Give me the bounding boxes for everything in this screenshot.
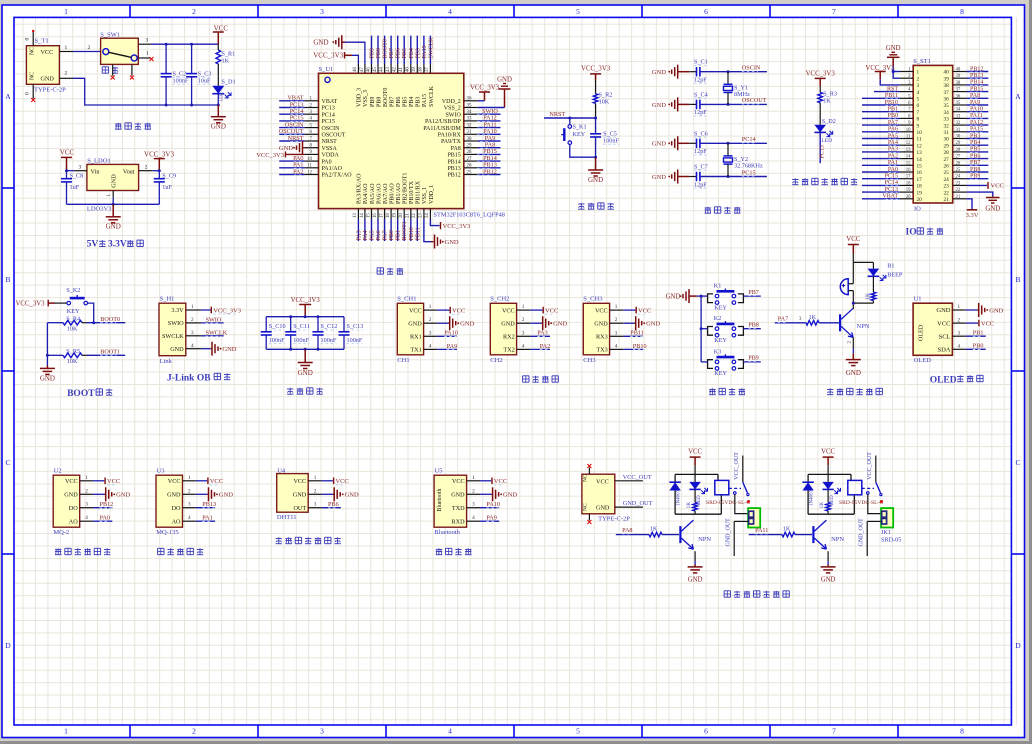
svg-text:S_K2: S_K2: [66, 287, 80, 294]
svg-text:PB4: PB4: [409, 48, 415, 58]
svg-text:2: 2: [65, 71, 68, 77]
connector S_CH3: [583, 296, 623, 364]
svg-text:4: 4: [448, 727, 452, 736]
svg-text:TX3: TX3: [596, 347, 607, 354]
wire relay contact to connector (PA11): [868, 494, 881, 513]
svg-text:15: 15: [366, 213, 371, 218]
ground GND (power circuit): [211, 105, 226, 131]
svg-text:CH1: CH1: [397, 357, 409, 364]
svg-text:LED: LED: [821, 138, 832, 144]
power GND (ST1 pin 22): [967, 192, 1001, 212]
svg-text:16: 16: [906, 168, 911, 173]
relay switch (PA11): [862, 482, 883, 503]
svg-text:BOOT1: BOOT1: [402, 221, 408, 240]
mcu top net wires and labels: [370, 36, 435, 64]
svg-text:VCC: VCC: [688, 448, 702, 455]
key S_K1 (reset button): [561, 118, 595, 157]
svg-text:1: 1: [191, 304, 194, 310]
svg-text:16: 16: [917, 170, 923, 176]
svg-text:D: D: [1015, 641, 1021, 650]
power VCC_3V3 (ldo output): [144, 150, 174, 170]
svg-text:VCC: VCC: [991, 183, 1004, 190]
svg-text:PB12: PB12: [100, 501, 114, 508]
svg-text:TX2: TX2: [503, 347, 514, 354]
svg-text:PA2: PA2: [293, 168, 303, 175]
svg-text:20: 20: [906, 195, 911, 200]
power VCC_3V3 (filter): [291, 297, 321, 317]
svg-text:K1: K1: [714, 283, 722, 290]
switch S_SW1: [100, 32, 138, 74]
svg-text:NPN: NPN: [831, 536, 844, 543]
svg-text:1uF: 1uF: [162, 184, 172, 191]
svg-text:PB8: PB8: [748, 322, 758, 328]
svg-text:C: C: [1015, 458, 1020, 467]
svg-text:3: 3: [145, 38, 148, 44]
title 温湿度检测模块: [276, 537, 341, 543]
svg-text:8MHz: 8MHz: [734, 91, 750, 98]
title OLED显示屏: [930, 375, 983, 385]
net label PB10 (S_CH3): [623, 343, 646, 350]
svg-text:MQ-135: MQ-135: [156, 529, 178, 536]
switch bottom stubs: [111, 64, 134, 79]
svg-text:PB6: PB6: [396, 48, 402, 58]
net label PC13 (rotated): [819, 145, 825, 158]
svg-text:S_C13: S_C13: [347, 323, 364, 330]
svg-text:VCC_OUT: VCC_OUT: [623, 474, 652, 481]
svg-text:PB9: PB9: [748, 356, 758, 362]
svg-text:PC14: PC14: [742, 136, 756, 143]
svg-text:34: 34: [956, 108, 961, 113]
svg-text:38: 38: [419, 67, 424, 72]
svg-text:4: 4: [472, 515, 475, 521]
svg-text:S_C10: S_C10: [269, 323, 286, 330]
svg-text:PB1: PB1: [973, 330, 984, 337]
svg-text:12: 12: [906, 141, 911, 146]
power VCC (S_CH3): [623, 307, 651, 315]
svg-text:4: 4: [188, 515, 191, 521]
svg-text:S_D1: S_D1: [222, 79, 236, 86]
svg-text:VCC: VCC: [41, 49, 54, 56]
svg-text:14: 14: [360, 213, 365, 218]
svg-text:RX2: RX2: [503, 334, 515, 341]
svg-text:S_C12: S_C12: [321, 323, 338, 330]
svg-text:PB12: PB12: [447, 173, 460, 179]
svg-text:PA5/AO: PA5/AO: [370, 183, 376, 204]
svg-text:31: 31: [944, 130, 950, 136]
net label PA11 (relay input): [749, 527, 782, 535]
svg-text:GND: GND: [222, 346, 236, 353]
svg-text:GND: GND: [652, 69, 666, 76]
connector S_ST1 right net wires: [967, 66, 989, 179]
svg-text:8: 8: [960, 7, 964, 16]
svg-text:48: 48: [353, 67, 358, 72]
svg-text:VBAT: VBAT: [882, 194, 898, 200]
svg-text:22: 22: [956, 188, 961, 193]
svg-text:PA8: PA8: [622, 527, 632, 534]
svg-text:3: 3: [320, 7, 324, 16]
svg-text:1: 1: [958, 304, 961, 310]
svg-text:PA4: PA4: [363, 230, 369, 240]
svg-text:PA0: PA0: [322, 159, 332, 165]
wire ldo vin: [65, 165, 87, 173]
svg-text:VCC: VCC: [452, 478, 465, 485]
title 晶振电路: [705, 207, 741, 213]
svg-text:TX1: TX1: [410, 347, 421, 354]
wire relay emitter (PA8): [694, 551, 696, 564]
resistor S_R5 10K: [47, 348, 125, 365]
mcu bottom pin names: [357, 173, 435, 204]
svg-text:2: 2: [429, 317, 432, 323]
svg-text:VCC_3V3: VCC_3V3: [581, 65, 611, 72]
svg-text:PB13: PB13: [202, 501, 216, 508]
svg-text:VCC: VCC: [596, 478, 609, 485]
svg-text:7: 7: [917, 110, 920, 116]
svg-text:3: 3: [320, 727, 324, 736]
diode 1N4007 (relay PA11): [802, 482, 814, 506]
net label BOOT0: [100, 316, 120, 323]
svg-text:26: 26: [956, 161, 961, 166]
svg-text:VCC: VCC: [545, 307, 558, 314]
svg-text:20: 20: [399, 213, 404, 218]
svg-text:S_C1: S_C1: [694, 59, 708, 66]
LED B1 BEEP: [868, 262, 903, 292]
svg-text:100nF: 100nF: [321, 337, 337, 344]
title BOOT电路: [67, 389, 112, 399]
svg-text:SWCLK: SWCLK: [162, 333, 184, 340]
svg-text:1N4007: 1N4007: [677, 489, 682, 506]
connector S_ST1 left net wires: [862, 86, 900, 199]
svg-text:37: 37: [425, 67, 430, 72]
svg-text:28: 28: [944, 150, 950, 156]
svg-text:GND: GND: [666, 294, 681, 301]
wire VCC_OUT (relay PA11): [867, 452, 876, 482]
resistor 1K (alarm led): [853, 292, 875, 303]
svg-text:PB11: PB11: [885, 93, 898, 99]
svg-text:S_R2: S_R2: [599, 91, 613, 98]
svg-text:KEY: KEY: [714, 337, 727, 344]
relay switch (PA8): [729, 482, 750, 503]
power VCC_3V3 (run led): [806, 71, 836, 93]
svg-text:BOOT: BOOT: [67, 389, 95, 399]
svg-text:IO: IO: [914, 206, 921, 213]
svg-text:PB11/RX: PB11/RX: [416, 180, 422, 204]
svg-text:26: 26: [944, 164, 950, 170]
net label PA1 (U3): [196, 515, 215, 522]
svg-text:15: 15: [906, 161, 911, 166]
capacitor S_C9 1uF: [154, 171, 176, 205]
svg-text:8: 8: [917, 117, 920, 123]
LED (relay PA11): [822, 474, 840, 505]
svg-text:GND: GND: [846, 369, 861, 377]
connector SRD (relay PA8): [748, 508, 760, 527]
svg-text:PC15: PC15: [742, 169, 756, 176]
svg-text:VCC: VCC: [107, 478, 120, 485]
switch pin3 wire to VCC rail: [138, 38, 218, 46]
svg-text:40: 40: [956, 68, 961, 73]
svg-text:PA4: PA4: [888, 140, 898, 146]
svg-text:PA15: PA15: [970, 127, 983, 133]
svg-text:KEY: KEY: [714, 304, 727, 311]
svg-text:1: 1: [146, 51, 149, 57]
svg-text:2: 2: [188, 488, 191, 494]
svg-text:3: 3: [615, 330, 618, 336]
svg-text:PA6/AO: PA6/AO: [376, 183, 382, 204]
LED S_D2: [814, 118, 835, 163]
net label PB7 (key): [743, 290, 760, 296]
svg-text:BEEP: BEEP: [887, 271, 903, 278]
svg-text:5: 5: [576, 727, 580, 736]
mcu right pins: [423, 97, 478, 179]
key K1: [708, 283, 744, 312]
svg-text:VCC: VCC: [821, 448, 835, 455]
svg-text:7: 7: [832, 727, 836, 736]
resistor 1K (relay led PA11): [819, 490, 830, 515]
svg-text:3: 3: [429, 330, 432, 336]
svg-text:KEY: KEY: [573, 131, 586, 138]
svg-text:13: 13: [917, 150, 923, 156]
buzzer B1: [840, 279, 853, 303]
svg-text:S_C8: S_C8: [70, 172, 84, 179]
svg-text:17: 17: [917, 177, 923, 183]
mcu bottom stubs: [353, 209, 430, 219]
svg-text:Bluetooth: Bluetooth: [437, 488, 443, 511]
wire GND_OUT (relay PA8): [726, 518, 749, 556]
svg-text:S_C7: S_C7: [694, 164, 708, 171]
svg-text:29: 29: [944, 143, 950, 149]
resistor 1K (relay base PA8): [649, 526, 679, 537]
svg-text:100nF: 100nF: [173, 78, 189, 85]
power GND (mcu VSS_1): [424, 219, 459, 249]
svg-text:3.3V: 3.3V: [966, 212, 979, 219]
power VCC_3V3 (jlink pin1): [201, 307, 241, 315]
svg-text:VCC: VCC: [214, 24, 229, 32]
power VCC (alarm): [846, 236, 860, 262]
pin 2 wire T1.GND down: [59, 71, 218, 106]
net label NRST wire: [544, 111, 597, 120]
svg-text:VSS_1: VSS_1: [422, 187, 428, 204]
resistor S_R2 10K: [593, 91, 612, 118]
svg-text:VSS_2: VSS_2: [444, 106, 461, 112]
svg-text:GND: GND: [170, 346, 184, 353]
power VCC (U3): [196, 478, 223, 486]
svg-text:S_ST1: S_ST1: [913, 58, 931, 65]
svg-text:U3: U3: [157, 467, 165, 474]
svg-text:1: 1: [188, 475, 191, 481]
svg-text:NC: NC: [30, 47, 36, 55]
net label SWIO (jlink): [201, 317, 223, 324]
svg-text:GND: GND: [345, 492, 359, 499]
svg-text:20: 20: [917, 197, 923, 203]
net label PB8 (key): [743, 322, 760, 328]
svg-text:100nF: 100nF: [293, 337, 309, 344]
ground GND (alarm): [846, 353, 861, 377]
svg-text:S_LDO1: S_LDO1: [87, 158, 110, 165]
svg-text:GND: GND: [219, 492, 233, 499]
net label BOOT1: [100, 349, 120, 356]
svg-text:1: 1: [917, 70, 920, 76]
svg-text:BOOT1: BOOT1: [100, 349, 120, 356]
svg-text:31: 31: [956, 128, 961, 133]
svg-text:S_CH3: S_CH3: [583, 296, 602, 303]
svg-text:47: 47: [360, 67, 365, 72]
title IO拓展口: [906, 228, 944, 238]
power GND (jlink pin4): [201, 342, 237, 356]
svg-text:VCC_3V3: VCC_3V3: [470, 85, 500, 92]
svg-text:U1: U1: [914, 296, 922, 303]
svg-text:2: 2: [472, 488, 475, 494]
svg-text:12: 12: [917, 143, 923, 149]
svg-text:25: 25: [944, 170, 950, 176]
svg-text:4: 4: [85, 515, 88, 521]
svg-text:VCC_3V3: VCC_3V3: [144, 150, 174, 158]
svg-text:PA9: PA9: [447, 343, 457, 350]
power VCC (S_CH1): [437, 307, 465, 315]
svg-text:S_R1: S_R1: [222, 51, 236, 58]
svg-text:PA6: PA6: [888, 127, 898, 133]
wire alarm emitter: [848, 337, 854, 353]
svg-text:12pF: 12pF: [694, 181, 707, 188]
svg-text:4: 4: [522, 343, 525, 349]
title J-Link OB接口: [167, 373, 230, 383]
capacitor S_C11 100nF: [285, 317, 310, 350]
svg-text:44: 44: [379, 67, 384, 72]
svg-text:5V: 5V: [87, 240, 99, 250]
diode 1N4007 (relay PA8): [669, 482, 681, 506]
svg-text:PB5: PB5: [403, 97, 409, 107]
svg-text:PA11: PA11: [755, 527, 768, 534]
capacitor S_C8 1uF: [61, 171, 83, 205]
svg-text:C: C: [5, 458, 10, 467]
svg-text:GND: GND: [688, 577, 703, 584]
power VCC_3V3 (mcu VDD_1): [430, 219, 470, 230]
svg-text:B1: B1: [887, 262, 894, 269]
wire filter bottom rail: [266, 348, 344, 351]
svg-text:24: 24: [956, 175, 961, 180]
transistor NPN (alarm): [840, 308, 870, 337]
net label PB12 (U2): [93, 501, 113, 508]
wire boot rail: [46, 323, 49, 366]
svg-text:5: 5: [917, 97, 920, 103]
svg-text:NC: NC: [583, 474, 589, 482]
svg-text:10K: 10K: [67, 358, 78, 365]
capacitor S_C4 12pF row: [652, 91, 767, 116]
svg-text:GND: GND: [596, 505, 610, 512]
svg-text:41: 41: [399, 67, 404, 72]
svg-text:PB7: PB7: [748, 290, 758, 296]
relay coil outline (PA11): [808, 474, 854, 514]
svg-text:PA5: PA5: [370, 230, 376, 240]
svg-text:VCC: VCC: [638, 307, 651, 314]
svg-text:A: A: [1015, 92, 1021, 101]
svg-text:GND: GND: [503, 492, 517, 499]
capacitor S_C7 12pF row: [652, 164, 767, 189]
svg-text:12pF: 12pF: [694, 148, 707, 155]
svg-text:VCC_3V3: VCC_3V3: [313, 52, 343, 60]
svg-text:PA2: PA2: [888, 153, 898, 159]
svg-text:S_CH2: S_CH2: [490, 296, 509, 303]
title 5V转3.3V电路: [87, 240, 144, 250]
svg-text:28: 28: [956, 148, 961, 153]
svg-text:GND: GND: [40, 375, 55, 383]
svg-text:VCC_3V3: VCC_3V3: [443, 223, 471, 230]
svg-text:PB11: PB11: [630, 330, 644, 337]
svg-text:PA7: PA7: [383, 230, 389, 240]
svg-text:S_T1: S_T1: [35, 38, 49, 45]
svg-text:100nF: 100nF: [269, 337, 285, 344]
module U3 MQ-135: [156, 467, 196, 536]
wire filter top rail: [266, 315, 344, 318]
svg-text:33: 33: [956, 114, 961, 119]
capacitor S_C3 10uF: [186, 44, 211, 106]
svg-text:CH3: CH3: [583, 357, 595, 364]
svg-text:4: 4: [958, 344, 961, 350]
svg-text:GND: GND: [989, 307, 1003, 314]
svg-text:LED: LED: [218, 92, 223, 101]
power VCC_3V3 (mcu VDD_2): [470, 85, 500, 101]
svg-text:Link: Link: [160, 358, 173, 365]
svg-text:PC13: PC13: [819, 145, 825, 158]
net label PB0 (oled): [966, 343, 986, 350]
svg-text:GND: GND: [167, 492, 181, 499]
svg-text:3: 3: [522, 330, 525, 336]
svg-text:S_K1: S_K1: [573, 124, 587, 131]
svg-text:4: 4: [615, 343, 618, 349]
svg-text:GND: GND: [451, 492, 465, 499]
svg-text:24: 24: [425, 213, 430, 218]
svg-text:GND: GND: [652, 174, 666, 181]
svg-text:VCC_OUT: VCC_OUT: [734, 452, 740, 480]
svg-text:GND: GND: [588, 176, 603, 184]
capacitor S_C10 100nF: [261, 317, 286, 350]
svg-text:PA0: PA0: [100, 515, 110, 522]
svg-text:GND: GND: [106, 223, 121, 231]
svg-text:2: 2: [314, 488, 317, 494]
svg-text:PA7: PA7: [888, 120, 898, 126]
net label PA10 (S_CH1): [437, 330, 458, 337]
svg-text:RST: RST: [887, 86, 898, 92]
wire VCC_OUT (relay PA8): [734, 452, 743, 482]
svg-text:GND: GND: [652, 141, 666, 148]
svg-text:1K: 1K: [686, 502, 692, 509]
svg-text:2: 2: [192, 7, 196, 16]
svg-text:0: 0: [25, 92, 31, 95]
wire ldo vout: [139, 165, 161, 173]
net label PA2 (S_CH2): [530, 343, 550, 350]
svg-text:LDO3V3: LDO3V3: [87, 206, 112, 213]
capacitor S_C12 100nF: [313, 317, 338, 350]
power VCC (U4): [322, 478, 349, 486]
svg-text:S_C5: S_C5: [603, 131, 617, 138]
regulator S_LDO1: [87, 158, 139, 213]
svg-text:100nF: 100nF: [603, 138, 619, 145]
svg-text:PB4: PB4: [409, 97, 415, 107]
svg-text:PA12/USB/DP: PA12/USB/DP: [425, 119, 461, 125]
svg-text:27: 27: [944, 157, 950, 163]
svg-text:19: 19: [906, 188, 911, 193]
svg-text:GND: GND: [445, 239, 459, 246]
svg-text:PA10: PA10: [444, 330, 458, 337]
svg-text:10uF: 10uF: [198, 78, 211, 85]
svg-text:OLED: OLED: [930, 375, 957, 385]
svg-text:SDA: SDA: [937, 347, 950, 354]
net label PB11 (S_CH3): [623, 330, 644, 337]
svg-text:11: 11: [906, 135, 911, 140]
svg-text:BOOT0: BOOT0: [100, 316, 120, 323]
svg-text:1: 1: [64, 7, 68, 16]
svg-text:4: 4: [448, 7, 452, 16]
power VCC (relay PA8): [688, 448, 702, 474]
svg-text:S_C4: S_C4: [694, 91, 708, 98]
